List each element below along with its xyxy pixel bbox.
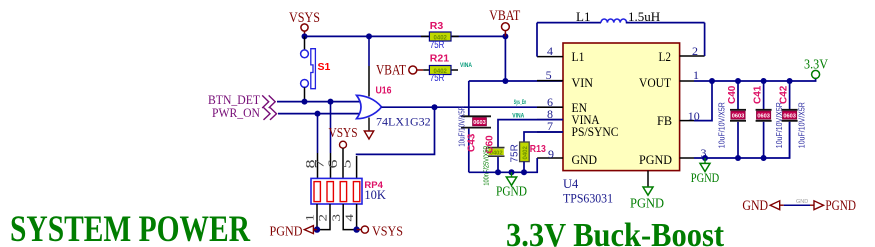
OR-gate U16 74LX1G32 — [357, 36, 431, 130]
port PWR_ON — [212, 106, 277, 120]
svg-text:C43: C43 — [467, 133, 478, 152]
svg-text:L2: L2 — [659, 49, 672, 64]
node junction RP4 pins 1-2 — [314, 226, 320, 232]
node junction FB/VOUT — [709, 78, 715, 84]
inductor rail: pin4 riser — [536, 23, 538, 57]
resistor R3 — [421, 20, 459, 51]
wire PWR_ON to gate input 2 — [278, 113, 361, 115]
node junction rail/VBAT — [502, 33, 508, 39]
wire RP4 pin3 drop — [343, 204, 356, 230]
pin 8 stub — [537, 119, 563, 121]
svg-text:0603: 0603 — [473, 120, 485, 126]
wire PS/SYNC to R13 — [524, 132, 563, 142]
wire RP4 pin5 to EN net — [356, 156, 358, 178]
svg-text:VIN: VIN — [572, 75, 594, 90]
wire VOUT line — [694, 78, 816, 81]
capacitor C43 — [458, 81, 492, 172]
wire RP4 pin4 drop — [356, 204, 358, 230]
node junction C41/VOUT — [761, 78, 767, 84]
svg-text:PGND: PGND — [825, 198, 856, 214]
svg-text:7: 7 — [547, 119, 553, 133]
wire top rail VSYS to VBAT — [305, 35, 506, 37]
svg-text:100nF/25V/X5R: 100nF/25V/X5R — [482, 145, 491, 185]
wire S1 bottom lead — [304, 87, 306, 101]
resistor network RP4 — [311, 178, 386, 204]
svg-text:GND: GND — [796, 199, 808, 205]
power port VSYS (top) — [289, 10, 320, 36]
svg-text:VBAT: VBAT — [489, 8, 520, 24]
pin 10 stub FB — [680, 120, 694, 122]
svg-text:75R: 75R — [510, 144, 521, 162]
node junction rail/S1 — [302, 33, 308, 39]
svg-text:75R: 75R — [430, 72, 445, 84]
svg-text:C40: C40 — [727, 85, 738, 104]
svg-text:Sys_En: Sys_En — [514, 100, 527, 106]
resistor R21 — [423, 53, 458, 85]
wire analog GND bus — [469, 158, 537, 172]
pin 9 stub GND — [537, 157, 563, 159]
wire gate output Sys_En to U4 EN — [382, 106, 564, 108]
node junction PGND/bus — [509, 169, 515, 175]
capacitor C60 — [482, 135, 505, 186]
node junction BTN_DET/RP4 pin7 — [328, 99, 334, 105]
switch S1 — [301, 49, 331, 89]
wire rail right of L1 — [626, 22, 705, 24]
wire rail left of L1 — [537, 22, 601, 24]
svg-text:FB: FB — [657, 113, 672, 128]
power port VSYS (RP4 pin6) — [329, 125, 358, 178]
svg-text:GND: GND — [572, 152, 598, 167]
node junction PWR_ON/RP4 pin8 — [315, 111, 321, 117]
svg-text:10uF/10V/X5R: 10uF/10V/X5R — [798, 102, 807, 148]
svg-text:L1: L1 — [572, 49, 585, 64]
svg-text:SYSTEM POWER: SYSTEM POWER — [10, 209, 251, 247]
capacitor C41 — [753, 81, 784, 158]
svg-text:2: 2 — [692, 44, 698, 58]
svg-text:VSYS: VSYS — [372, 224, 403, 239]
IC U4 TPS63031 body — [563, 43, 680, 171]
wire pin2 riser — [704, 23, 706, 56]
svg-text:PGND: PGND — [270, 224, 303, 239]
capacitor C42 — [779, 81, 807, 158]
svg-text:10uF/10V/X5R: 10uF/10V/X5R — [458, 106, 467, 147]
power port PGND (bus, green arrow) — [496, 172, 527, 198]
svg-text:10uF/10V/X5R: 10uF/10V/X5R — [718, 102, 727, 148]
node junction RP4 pins 3-4 — [353, 226, 359, 232]
node junction R13/bus — [521, 169, 527, 175]
node junction C40/bus — [735, 155, 741, 161]
power port PGND (right of pin3) — [691, 158, 720, 185]
svg-text:C42: C42 — [779, 85, 790, 104]
svg-text:VBAT: VBAT — [376, 62, 406, 78]
svg-text:PGND: PGND — [630, 196, 664, 211]
svg-text:R21: R21 — [430, 53, 449, 65]
svg-text:3.3V: 3.3V — [804, 57, 828, 72]
wire RP4 pin7 drop — [330, 102, 332, 153]
power port PGND (under IC) — [630, 171, 664, 211]
pin 6 stub — [537, 106, 563, 108]
wire S1 top lead — [304, 36, 306, 50]
pin 2 stub — [680, 55, 705, 57]
svg-text:4: 4 — [547, 44, 553, 58]
capacitor C40 — [718, 81, 747, 158]
svg-text:0603: 0603 — [757, 114, 769, 120]
pin 4 stub — [537, 56, 563, 58]
inductor L1 — [576, 9, 660, 24]
wire RP4 pin1 drop — [316, 204, 318, 230]
svg-text:3.3V Buck-Boost: 3.3V Buck-Boost — [506, 217, 725, 247]
svg-text:5: 5 — [339, 160, 354, 169]
svg-text:VINA: VINA — [460, 63, 473, 69]
node junction C41/bus — [761, 155, 767, 161]
node junction C40/VOUT — [735, 78, 741, 84]
node junction EN/pull-up — [432, 104, 438, 110]
svg-text:0402: 0402 — [523, 145, 529, 159]
svg-text:R13: R13 — [530, 143, 546, 155]
svg-text:PGND: PGND — [639, 152, 672, 167]
pin 1 stub — [680, 80, 694, 82]
svg-text:4: 4 — [342, 214, 356, 222]
svg-text:0603: 0603 — [732, 114, 744, 120]
power port 3.3V — [804, 57, 828, 79]
pin 5 stub — [537, 80, 563, 82]
svg-text:2: 2 — [316, 214, 330, 222]
svg-text:PGND: PGND — [496, 184, 527, 199]
svg-text:1: 1 — [693, 68, 699, 82]
node junction C60/bus — [495, 169, 501, 175]
svg-text:C41: C41 — [753, 85, 764, 104]
pin 7 stub — [537, 131, 563, 133]
node junction C42/VOUT — [787, 78, 793, 84]
svg-text:TPS63031: TPS63031 — [563, 192, 613, 206]
svg-text:1: 1 — [302, 214, 316, 222]
wire RP4 pin8 drop — [317, 114, 319, 153]
svg-text:L1: L1 — [576, 9, 590, 24]
svg-text:0603: 0603 — [783, 114, 795, 120]
port BTN_DET — [208, 93, 275, 108]
svg-text:GND: GND — [742, 198, 768, 214]
ground arrow (gate GND, maroon) — [364, 131, 373, 139]
svg-text:BTN_DET: BTN_DET — [208, 93, 260, 107]
power port VBAT (top) — [489, 8, 520, 36]
wire PGND bottom bus — [694, 122, 790, 158]
net VINA wire to C60 — [498, 120, 563, 147]
svg-text:U4: U4 — [563, 177, 579, 191]
power port PGND (RP4, maroon triangle) — [270, 224, 318, 239]
svg-text:R3: R3 — [430, 20, 444, 32]
svg-text:5: 5 — [546, 68, 552, 82]
wire VIN line — [469, 80, 563, 82]
svg-text:PS/SYNC: PS/SYNC — [572, 124, 619, 139]
power port VBAT (R21) — [376, 62, 423, 78]
svg-text:9: 9 — [548, 147, 554, 161]
svg-text:S1: S1 — [318, 61, 331, 73]
svg-text:VINA: VINA — [512, 113, 525, 119]
svg-text:VOUT: VOUT — [639, 75, 671, 90]
svg-text:PGND: PGND — [691, 171, 720, 185]
off-sheet connector GND to PGND — [742, 198, 856, 214]
wire FB riser — [694, 81, 712, 121]
wire RP4 pin2 drop — [317, 204, 330, 230]
power port VSYS (RP4 bottom right) — [357, 224, 403, 239]
pin 3 stub PGND — [680, 157, 694, 159]
wire VBAT drop to VIN — [504, 36, 506, 81]
svg-text:75R: 75R — [430, 39, 445, 51]
svg-text:74LX1G32: 74LX1G32 — [376, 115, 431, 129]
node junction VBAT/VIN — [502, 78, 508, 84]
node junction S1/BTN_DET — [302, 99, 308, 105]
svg-text:U16: U16 — [376, 85, 392, 97]
wire BTN_DET to gate input 1 — [277, 101, 360, 103]
svg-text:3: 3 — [329, 214, 343, 222]
node junction pin3/PGND arrow — [702, 155, 708, 161]
node junction rail/gate VCC — [366, 33, 372, 39]
resistor R13 — [510, 142, 546, 172]
svg-text:10K: 10K — [364, 188, 386, 202]
svg-text:VSYS: VSYS — [329, 125, 358, 140]
svg-text:PWR_ON: PWR_ON — [212, 106, 260, 120]
